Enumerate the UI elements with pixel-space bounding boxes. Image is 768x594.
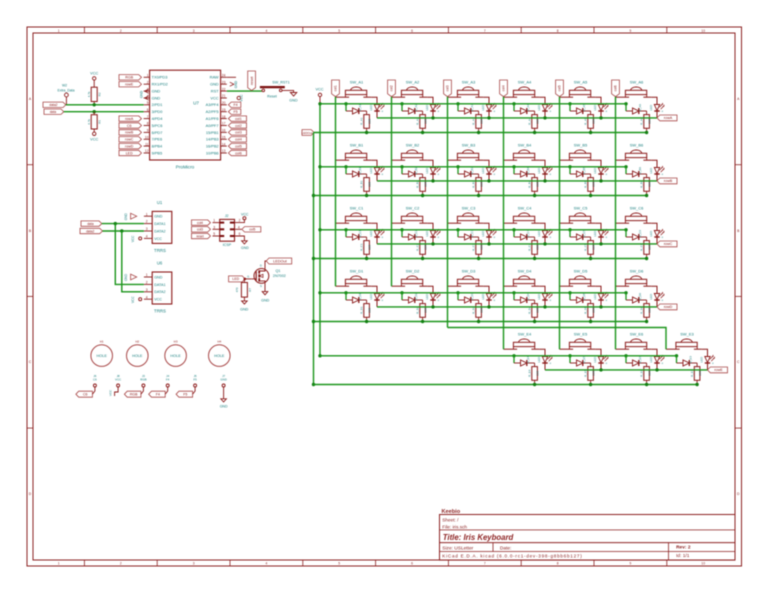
diode D_A5 (570, 104, 591, 114)
svg-text:GND: GND (261, 298, 270, 302)
label col3 at U7 right pin 16 (228, 130, 246, 135)
svg-text:3: 3 (146, 288, 148, 292)
svg-text:SW_B4: SW_B4 (518, 142, 532, 147)
svg-text:col2: col2 (390, 85, 394, 91)
wire VCC tap D1 (344, 291, 347, 300)
svg-text:15/PB1: 15/PB1 (206, 130, 219, 135)
label col3 column header (444, 80, 452, 97)
label LED at U7 pin 12 (119, 150, 142, 155)
svg-text:4.7k: 4.7k (87, 119, 91, 125)
LED LED_B5 (593, 166, 608, 181)
svg-text:Q1: Q1 (276, 269, 281, 273)
svg-text:14/PB3: 14/PB3 (206, 137, 219, 142)
wire VCC tap A4 (512, 102, 515, 111)
svg-text:rowD: rowD (125, 144, 134, 148)
switch SW_D5 (560, 268, 596, 286)
U7 left pin 5 2/PD1 (144, 101, 163, 107)
svg-text:220: 220 (536, 181, 540, 186)
svg-text:SW_A6: SW_A6 (630, 79, 644, 84)
power VCC above R2 (90, 71, 98, 87)
svg-text:TX0/PD3: TX0/PD3 (152, 75, 168, 80)
svg-text:SW_B6: SW_B6 (630, 142, 644, 147)
label col5 column header (556, 80, 564, 97)
svg-text:220: 220 (480, 244, 484, 249)
label rowE (708, 367, 728, 373)
U7 right pin 23 GND (210, 80, 227, 86)
svg-text:RGB: RGB (140, 378, 146, 382)
resistor R_E4 220 (528, 363, 540, 385)
svg-text:rowB: rowB (664, 179, 673, 183)
svg-text:D_C2: D_C2 (414, 230, 418, 238)
svg-text:DATA1: DATA1 (154, 283, 165, 287)
svg-text:LED: LED (537, 356, 541, 363)
svg-text:GND: GND (289, 99, 298, 103)
svg-text:2: 2 (147, 80, 149, 84)
svg-text:220: 220 (536, 307, 540, 312)
svg-text:2/PD1: 2/PD1 (152, 102, 163, 107)
svg-text:LED: LED (649, 356, 653, 363)
svg-text:D_E5: D_E5 (582, 356, 586, 364)
svg-text:data2: data2 (49, 103, 57, 107)
LED LED_E6 (649, 355, 664, 370)
svg-text:9/PB5: 9/PB5 (152, 150, 163, 155)
resistor R_B1 220 (360, 174, 372, 196)
wire SW_A1 to LED_A1 (371, 97, 377, 104)
svg-text:R7: R7 (248, 288, 252, 292)
wire SW_D4 to LED_D4 (539, 286, 545, 293)
label col4 column header (500, 80, 508, 97)
svg-text:D_B4: D_B4 (526, 167, 530, 175)
svg-text:4/PD4: 4/PD4 (152, 116, 164, 121)
wire VCC tap B1 (344, 165, 347, 174)
resistor R_C2 220 (416, 237, 428, 259)
svg-text:HOLE: HOLE (214, 354, 225, 358)
connector J2 ICSP body (220, 214, 235, 247)
svg-text:SW_E3: SW_E3 (680, 331, 694, 336)
resistor R_C6 220 (640, 237, 652, 259)
U6 pin 4 VCC (144, 295, 162, 301)
ground GND at reset switch (289, 93, 298, 103)
svg-text:F5: F5 (233, 110, 237, 114)
svg-text:R_E4: R_E4 (528, 369, 532, 377)
svg-text:R2: R2 (98, 92, 102, 96)
wire VCC tap A2 (400, 102, 403, 111)
svg-text:RAW: RAW (210, 75, 219, 80)
power VCC below R1 (90, 132, 98, 142)
wire SW_D2 to LED_D2 (427, 286, 433, 293)
svg-text:SW_C6: SW_C6 (630, 205, 645, 210)
wire SW_A5 to LED_A5 (595, 97, 601, 104)
svg-text:col1: col1 (235, 117, 242, 121)
wire VCC tap D4 (512, 291, 515, 300)
wire LEDOut rail row E (314, 383, 699, 386)
U7 left pin 12 9/PB5 (144, 149, 163, 155)
wire data2 to U1 pin3 and U6 (103, 229, 144, 291)
svg-text:220: 220 (368, 307, 372, 312)
svg-text:22: 22 (222, 87, 226, 91)
power VCC at matrix top left (315, 87, 323, 103)
svg-text:LED: LED (232, 277, 239, 281)
svg-text:LED: LED (649, 230, 653, 237)
resistor R_D5 220 (584, 300, 596, 322)
svg-text:G: G (247, 274, 249, 278)
svg-text:220: 220 (592, 307, 596, 312)
label col1 column header (332, 80, 340, 97)
svg-text:LED: LED (425, 230, 429, 237)
wire SW_C3 to LED_C3 (483, 223, 489, 230)
switch SW_A4 (504, 79, 540, 97)
svg-text:SW_D5: SW_D5 (574, 268, 589, 273)
J2 pin4 label col5 (235, 225, 261, 232)
wire SW_B2 to LED_B2 (427, 160, 433, 167)
GND label at U7 pin 23 (230, 80, 238, 88)
switch SW_B4 (504, 142, 540, 160)
diode D_B3 (458, 167, 479, 177)
switch SW_D6 (616, 268, 652, 286)
svg-text:VCC: VCC (315, 87, 323, 91)
svg-text:VCC: VCC (210, 95, 218, 100)
wire VCC tap A6 (624, 102, 627, 111)
U7 left pin 7 4/PD4 (144, 115, 164, 121)
svg-text:rowE: rowE (125, 83, 134, 87)
svg-text:9: 9 (630, 29, 632, 33)
diode D_B6 (626, 167, 647, 177)
svg-text:D_A3: D_A3 (470, 104, 474, 112)
resistor R_C5 220 (584, 237, 596, 259)
svg-text:LEDOut: LEDOut (273, 259, 287, 263)
diode D_A2 (402, 104, 423, 114)
resistor R1 4.7k (87, 112, 101, 132)
connector J4 F4 (149, 374, 170, 397)
svg-text:220: 220 (480, 118, 484, 123)
wire SW_C6 to LED_C6 (651, 223, 657, 230)
svg-text:220: 220 (592, 244, 596, 249)
wire SW_C5 to LED_C5 (595, 223, 601, 230)
LED LED_B2 (425, 166, 440, 181)
svg-text:17: 17 (222, 122, 226, 126)
resistor R_D1 220 (360, 300, 372, 322)
svg-text:A1/PF6: A1/PF6 (206, 116, 219, 121)
LED LED_B4 (537, 166, 552, 181)
diode D_E6 (626, 356, 647, 366)
svg-text:C6: C6 (127, 124, 132, 128)
svg-text:9: 9 (630, 562, 632, 566)
svg-text:SW_C5: SW_C5 (574, 205, 589, 210)
svg-text:LED: LED (649, 293, 653, 300)
label col6 at U7 right pin 13 (228, 150, 246, 155)
svg-text:VCC: VCC (109, 389, 113, 396)
svg-text:VCC: VCC (241, 212, 249, 216)
svg-text:Id: 1/1: Id: 1/1 (676, 553, 690, 559)
U7 right pin 20 A3/PF4 (206, 101, 227, 107)
ground GND below R7 (240, 301, 249, 312)
svg-text:LED: LED (425, 104, 429, 111)
diode D_E4 (514, 356, 535, 366)
resistor R_D6 220 (640, 300, 652, 322)
wire VCC tap C5 (568, 228, 571, 237)
LED LED_C3 (481, 229, 496, 244)
svg-text:Size: USLetter: Size: USLetter (442, 545, 473, 551)
LED LED_C2 (425, 229, 440, 244)
U7 right pin 14 16/PB2 (206, 142, 227, 148)
wire Q1 drain (265, 261, 266, 269)
svg-text:24: 24 (222, 74, 226, 78)
svg-text:GND: GND (124, 212, 128, 220)
resistor R_B4 220 (528, 174, 540, 196)
diode D_D3 (458, 293, 479, 303)
svg-text:VCC: VCC (154, 237, 162, 241)
switch SW_A3 (448, 79, 484, 97)
svg-text:RGB: RGB (130, 393, 138, 397)
svg-text:rowB: rowB (125, 131, 134, 135)
svg-text:LED: LED (649, 104, 653, 111)
svg-text:6: 6 (411, 562, 413, 566)
wire SW_D6 to LED_D6 (651, 286, 657, 293)
svg-text:D: D (260, 263, 262, 267)
wire SW_C1 to LED_C1 (371, 223, 377, 230)
U7 pin24 RAW stub (227, 76, 236, 78)
svg-text:LED: LED (425, 293, 429, 300)
mounting hole H3 HOLE (165, 340, 187, 367)
svg-text:LED: LED (425, 167, 429, 174)
LED LED_C6 (649, 229, 664, 244)
svg-text:LED: LED (369, 167, 373, 174)
switch SW_D1 (336, 268, 372, 286)
resistor R_E6 220 (640, 363, 652, 385)
svg-text:rowC: rowC (125, 138, 134, 142)
svg-text:5: 5 (147, 101, 149, 105)
svg-text:1: 1 (147, 74, 149, 78)
label rowE at U7 pin 2 (119, 82, 142, 87)
svg-text:SW_B2: SW_B2 (406, 142, 420, 147)
power VCC at U1 pin4 (131, 235, 142, 242)
switch SW_C3 (448, 205, 484, 223)
svg-text:R_C1: R_C1 (360, 243, 364, 251)
svg-text:LED: LED (593, 293, 597, 300)
power VCC at U6 pin4 (131, 296, 142, 303)
jumper W2 Extra_Data (58, 84, 75, 105)
resistor R_D3 220 (472, 300, 484, 322)
svg-text:SW_A1: SW_A1 (350, 79, 364, 84)
op-amp U7 ProMicro body (150, 70, 221, 169)
svg-text:GND: GND (240, 308, 249, 312)
svg-text:rowD: rowD (664, 305, 673, 309)
svg-text:U1: U1 (157, 200, 163, 205)
switch SW_C1 (336, 205, 372, 223)
svg-text:14: 14 (222, 142, 226, 146)
wire VCC tap E6 (624, 354, 627, 363)
LED LED_D3 (481, 292, 496, 307)
wire SW_B6 to LED_B6 (651, 160, 657, 167)
svg-text:15: 15 (222, 136, 226, 140)
wire column col6 vertical (615, 97, 617, 349)
LED LED_E4 (537, 355, 552, 370)
U7 right pin 18 A1/PF6 (206, 115, 227, 121)
transistor Q1 2N7002 (247, 263, 286, 288)
connector U1 TRRS body (152, 200, 172, 253)
mounting hole H1 HOLE (91, 340, 113, 367)
resistor R_E3 220 (690, 363, 702, 385)
svg-text:D_C6: D_C6 (638, 230, 642, 238)
resistor R_B5 220 (584, 174, 596, 196)
connector J8 VCC (109, 374, 122, 396)
diode D_D6 (626, 293, 647, 303)
svg-text:D_B5: D_B5 (582, 167, 586, 175)
svg-text:6: 6 (411, 29, 413, 33)
svg-text:LED: LED (593, 104, 597, 111)
switch SW_E3 (666, 331, 702, 349)
label rowB at U7 pin 9 (119, 130, 142, 135)
svg-text:H4: H4 (217, 340, 221, 344)
svg-text:LED: LED (537, 167, 541, 174)
svg-text:RX1/PD2: RX1/PD2 (152, 82, 168, 87)
LED LED_C5 (593, 229, 608, 244)
label col2 column header (388, 80, 396, 97)
svg-text:220: 220 (368, 181, 372, 186)
svg-text:D_D3: D_D3 (470, 293, 474, 301)
svg-text:F4: F4 (166, 378, 170, 382)
svg-text:21: 21 (222, 94, 226, 98)
wire SW_B5 to LED_B5 (595, 160, 601, 167)
svg-text:SW_B3: SW_B3 (462, 142, 476, 147)
wire VCC tap A5 (568, 102, 571, 111)
svg-text:LED: LED (593, 230, 597, 237)
label LED at Q1 gate (229, 276, 245, 282)
svg-text:2: 2 (239, 219, 241, 223)
svg-text:VCC: VCC (240, 94, 244, 102)
svg-text:11: 11 (145, 142, 149, 146)
wire rowC horizontal (377, 242, 657, 245)
svg-text:220: 220 (480, 307, 484, 312)
U7 left pin 4 GND (144, 94, 161, 100)
svg-text:220: 220 (648, 181, 652, 186)
svg-text:D_C3: D_C3 (470, 230, 474, 238)
LED LED_B6 (649, 166, 664, 181)
U6 pin 2 DATA1 (144, 281, 166, 287)
svg-text:1: 1 (146, 273, 148, 277)
svg-text:SW_A2: SW_A2 (406, 79, 420, 84)
svg-text:F4: F4 (156, 393, 160, 397)
svg-text:SW_C4: SW_C4 (518, 205, 533, 210)
label data (left) (44, 109, 64, 114)
svg-text:220: 220 (592, 118, 596, 123)
svg-text:3/PD0: 3/PD0 (152, 109, 164, 114)
connector J6 C6 (76, 374, 97, 397)
svg-text:LED: LED (369, 230, 373, 237)
svg-text:col3: col3 (446, 85, 450, 91)
svg-text:D_A4: D_A4 (526, 104, 530, 112)
wire U7 pin22 to reset switch (227, 90, 262, 92)
svg-text:col6: col6 (614, 85, 618, 91)
svg-text:220: 220 (648, 244, 652, 249)
svg-text:TRRS: TRRS (154, 308, 166, 313)
svg-text:D_D4: D_D4 (526, 293, 530, 301)
label LEDOut at Q1 drain (266, 258, 292, 264)
title block (440, 509, 736, 560)
svg-text:LED: LED (593, 356, 597, 363)
svg-text:SW_C1: SW_C1 (350, 205, 365, 210)
switch SW_C6 (616, 205, 652, 223)
svg-text:GND: GND (220, 378, 226, 382)
svg-text:D_C5: D_C5 (582, 230, 586, 238)
svg-text:col6: col6 (235, 151, 242, 155)
svg-text:F5: F5 (193, 378, 197, 382)
svg-text:col3: col3 (197, 228, 203, 232)
switch SW_C5 (560, 205, 596, 223)
svg-text:GND: GND (241, 246, 249, 250)
connector U6 TRRS body (152, 260, 172, 313)
switch SW_B2 (392, 142, 428, 160)
svg-text:GND: GND (220, 405, 228, 409)
svg-text:220: 220 (424, 118, 428, 123)
svg-text:220: 220 (592, 181, 596, 186)
svg-text:R_D1: R_D1 (360, 306, 364, 314)
connector J3 RGB (124, 374, 146, 397)
diode D_C1 (346, 230, 367, 240)
svg-text:SW_A4: SW_A4 (518, 79, 532, 84)
LED LED_E3 (700, 355, 715, 370)
resistor R_C4 220 (528, 237, 540, 259)
switch SW_E6 (616, 331, 652, 349)
wire rowD horizontal (377, 305, 657, 308)
svg-text:LED: LED (369, 104, 373, 111)
svg-text:col2: col2 (235, 124, 242, 128)
svg-text:HOLE: HOLE (97, 354, 108, 358)
svg-text:Rev: 2: Rev: 2 (676, 544, 691, 550)
wire SW_E5 to LED_E5 (595, 349, 601, 356)
svg-text:SW_D2: SW_D2 (406, 268, 421, 273)
wire VCC tap C2 (400, 228, 403, 237)
U7 right pin 15 14/PB3 (206, 136, 227, 142)
svg-text:S: S (260, 284, 262, 288)
U7 right pin 13 10/PB6 (206, 149, 227, 155)
diode D_E3 (677, 356, 698, 366)
svg-text:6/PD7: 6/PD7 (152, 130, 163, 135)
svg-text:LED: LED (481, 167, 485, 174)
diode D_B4 (514, 167, 535, 177)
svg-text:HOLE: HOLE (132, 354, 143, 358)
diode D_D4 (514, 293, 535, 303)
svg-text:470: 470 (235, 287, 239, 292)
svg-text:10: 10 (145, 136, 149, 140)
diode D_D5 (570, 293, 591, 303)
resistor R_B3 220 (472, 174, 484, 196)
svg-text:H1: H1 (100, 340, 104, 344)
svg-text:SW_RST1: SW_RST1 (272, 81, 289, 85)
svg-text:3: 3 (146, 227, 148, 231)
svg-text:GND: GND (124, 273, 128, 281)
svg-text:D_E6: D_E6 (638, 356, 642, 364)
wire column col1 vertical (335, 97, 337, 286)
wire VCC rail row E (320, 355, 677, 357)
resistor R_C1 220 (360, 237, 372, 259)
U7 right pin 24 RAW (210, 74, 227, 80)
svg-text:4.7k: 4.7k (87, 91, 91, 97)
connector J7 GND (220, 374, 228, 409)
resistor R_D2 220 (416, 300, 428, 322)
diode D_A6 (626, 104, 647, 114)
svg-text:Date:: Date: (500, 545, 511, 551)
svg-text:VCC: VCC (90, 71, 98, 75)
svg-text:16: 16 (222, 129, 226, 133)
switch SW_RST1 Reset (260, 81, 290, 99)
switch SW_A6 (616, 79, 652, 97)
label rowB (657, 178, 677, 184)
wire SW_B1 to LED_B1 (371, 160, 377, 167)
wire SW_A3 to LED_A3 (483, 97, 489, 104)
label F4 at U7 right pin 20 (228, 102, 240, 107)
svg-text:LED: LED (481, 230, 485, 237)
